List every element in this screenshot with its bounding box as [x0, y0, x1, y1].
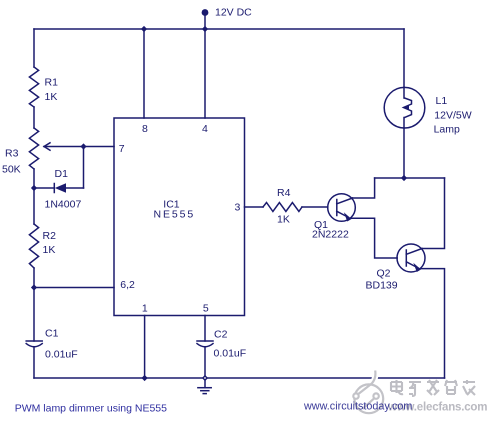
node 12V DC terminal [202, 9, 209, 29]
svg-text:50K: 50K [2, 164, 21, 176]
resistor R4 [263, 203, 302, 212]
svg-text:1K: 1K [45, 91, 58, 103]
ground [198, 378, 211, 394]
svg-text:Lamp: Lamp [434, 124, 460, 136]
svg-text:C1: C1 [45, 328, 59, 340]
svg-text:BD139: BD139 [366, 280, 398, 292]
wire R3 to D1 node [33, 169, 35, 188]
op-amp U1 IC box IC1 NE555 [114, 118, 245, 316]
svg-text:2N2222: 2N2222 [312, 229, 349, 241]
svg-text:1N4007: 1N4007 [45, 199, 82, 211]
wire Q2 emitter [420, 269, 445, 378]
wire lamp top lead [403, 29, 405, 87]
watermark logo elecfans [353, 371, 383, 414]
potentiometer R3 [29, 128, 114, 169]
svg-text:L1: L1 [436, 95, 448, 107]
wire R4 to Q1 base [302, 206, 328, 208]
lamp L1 [384, 87, 425, 128]
svg-text:Q2: Q2 [377, 268, 391, 280]
wire pin 3 [245, 206, 264, 208]
capacitor C2 [197, 341, 213, 347]
wire pin 1 [144, 316, 146, 379]
wire R2 to C1 [33, 268, 35, 341]
wire pin 4 to rail [204, 29, 206, 118]
wire pin 8 to rail [143, 29, 145, 118]
wire left rail top [33, 29, 35, 67]
svg-text:R4: R4 [277, 187, 291, 199]
wire D1 node to R2 [33, 188, 35, 224]
wire collector rail [375, 177, 445, 179]
diode D1 [34, 147, 84, 193]
svg-text:1K: 1K [277, 214, 290, 226]
svg-text:12V DC: 12V DC [215, 7, 252, 19]
wire Q1 emitter to Q2 base [351, 218, 398, 258]
wire pin 6,2 [34, 287, 114, 289]
wire pin 5 [204, 316, 206, 342]
svg-text:12V/5W: 12V/5W [434, 110, 471, 122]
svg-text:D1: D1 [55, 168, 69, 180]
svg-text:0.01uF: 0.01uF [214, 348, 247, 360]
svg-text:www.circuitstoday.com: www.circuitstoday.com [303, 401, 412, 413]
svg-text:NE555: NE555 [154, 208, 196, 220]
wire C1 to bottom rail [33, 347, 35, 378]
node junction dots [31, 26, 407, 381]
svg-text:0.01uF: 0.01uF [45, 349, 78, 361]
svg-text:5: 5 [203, 303, 209, 315]
wire top supply rail [34, 28, 404, 30]
wire Q2 collector [422, 178, 445, 249]
svg-text:R2: R2 [43, 230, 57, 242]
resistor R1 [29, 67, 38, 107]
svg-text:C2: C2 [214, 329, 228, 341]
wire bottom ground rail [34, 377, 445, 379]
watermark chinese text 电子发烧友 [391, 380, 475, 396]
svg-text:8: 8 [142, 123, 148, 135]
svg-text:6,2: 6,2 [120, 279, 135, 291]
svg-text:R3: R3 [5, 148, 19, 160]
resistor R2 [29, 224, 38, 268]
svg-text:3: 3 [235, 202, 241, 214]
wire Q1 collector [353, 178, 375, 198]
wire lamp bottom lead [403, 128, 405, 178]
svg-text:1: 1 [142, 303, 148, 315]
wire C2 to rail [204, 347, 206, 378]
wire R1 to R3 [33, 107, 35, 128]
svg-text:PWM lamp dimmer using NE555: PWM lamp dimmer using NE555 [15, 402, 167, 414]
svg-text:1K: 1K [43, 244, 56, 256]
svg-text:7: 7 [119, 143, 125, 155]
svg-text:R1: R1 [45, 77, 59, 89]
capacitor C1 [26, 341, 42, 347]
transistor Q1 [328, 194, 356, 222]
svg-text:4: 4 [202, 123, 208, 135]
transistor Q2 [397, 244, 425, 272]
